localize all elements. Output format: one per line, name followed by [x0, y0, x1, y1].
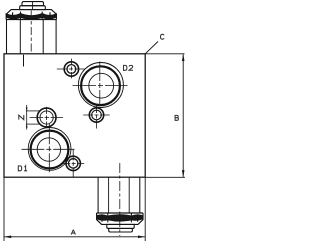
cavity line below top valve [23, 55, 25, 67]
leader line C [145, 42, 158, 54]
port D1: crosshair vertical [48, 124, 50, 172]
cartridge valve bottom: hex nut [97, 213, 143, 224]
bolt hole top left [64, 62, 78, 76]
wire left extension line for A dimension [3, 177, 5, 241]
port D1: bore circle [37, 138, 60, 161]
bolt hole bottom right of D1 [66, 156, 80, 170]
wire top extension line for B dimension [145, 53, 184, 55]
dimension line A [4, 236, 145, 238]
cartridge valve top: centerline [32, 2, 34, 10]
cartridge valve top: cap bar 2 [20, 6, 46, 10]
port D1: seat circle [31, 131, 69, 169]
port D2: crosshair vertical [99, 62, 101, 105]
label D2 [123, 65, 127, 70]
port D2: crosshair horizontal [73, 85, 128, 87]
block body outline [4, 54, 145, 177]
port D2: seat circle [81, 66, 120, 105]
port D1: crosshair horizontal [22, 148, 75, 150]
label B [175, 115, 179, 120]
bolt hole below D2 [89, 108, 103, 122]
cartridge valve top: body [7, 20, 57, 54]
wire bottom extension line for B dimension [145, 176, 185, 178]
label D1 [18, 166, 22, 171]
cartridge valve bottom: cap bar 2 [109, 228, 133, 232]
wire right extension line for A dimension [144, 177, 146, 241]
dimension line B [182, 54, 184, 177]
dimension Z ticks [26, 110, 40, 112]
port D2: outer circle [78, 63, 123, 108]
cartridge valve top: hex nut [6, 10, 56, 20]
label C [161, 34, 164, 39]
cartridge valve bottom: centerline [119, 163, 121, 236]
label Z rotated [19, 115, 24, 120]
cartridge valve bottom: body [98, 177, 140, 213]
cartridge valve top: cap bar 1 [22, 2, 44, 6]
cartridge valve bottom: cap bar 1 [107, 224, 134, 228]
label A [71, 230, 75, 235]
port D2: bore circle [89, 73, 114, 98]
port D1: outer circle [28, 127, 71, 170]
port Z circle [37, 108, 56, 127]
dimension line Z [26, 105, 28, 130]
